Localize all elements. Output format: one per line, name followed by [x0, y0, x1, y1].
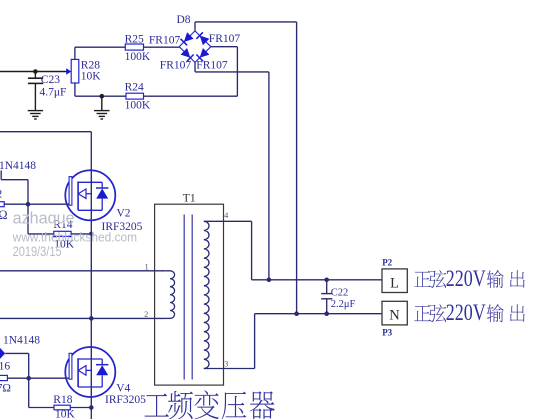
svg-text:100K: 100K: [125, 51, 151, 63]
svg-text:2: 2: [144, 310, 148, 319]
svg-text:R18: R18: [53, 394, 72, 406]
svg-text:2.2μF: 2.2μF: [331, 299, 356, 310]
svg-text:R16: R16: [0, 361, 10, 373]
svg-text:FR107: FR107: [209, 33, 241, 45]
svg-text:220V: 220V: [446, 300, 486, 326]
svg-text:C23: C23: [41, 74, 60, 86]
svg-text:N: N: [389, 308, 400, 324]
svg-text:FR107: FR107: [196, 60, 228, 72]
svg-text:www.theblackshed.com: www.theblackshed.com: [12, 229, 137, 244]
svg-text:L: L: [390, 275, 399, 291]
svg-text:FR107: FR107: [149, 34, 181, 46]
svg-text:1N4148: 1N4148: [0, 160, 36, 172]
svg-text:FR107: FR107: [160, 60, 192, 72]
svg-text:4.7μF: 4.7μF: [40, 86, 67, 98]
svg-text:V4: V4: [116, 383, 130, 395]
svg-text:1: 1: [145, 262, 149, 271]
svg-text:Ω: Ω: [0, 208, 7, 222]
svg-text:2019/3/15: 2019/3/15: [13, 244, 62, 259]
svg-text:C22: C22: [331, 287, 349, 298]
svg-text:10K: 10K: [81, 71, 102, 83]
svg-text:4: 4: [224, 211, 228, 220]
svg-text:R24: R24: [125, 81, 144, 93]
svg-text:1N4148: 1N4148: [3, 335, 40, 347]
svg-text:100K: 100K: [125, 99, 151, 111]
svg-text:2: 2: [0, 189, 3, 201]
svg-text:T1: T1: [183, 193, 196, 205]
svg-text:3: 3: [224, 359, 228, 368]
svg-text:10K: 10K: [55, 409, 76, 419]
svg-text:IRF3205: IRF3205: [105, 394, 146, 406]
svg-text:220V: 220V: [446, 266, 486, 292]
svg-text:D8: D8: [177, 14, 191, 26]
svg-text:azhaque: azhaque: [13, 209, 75, 228]
svg-text:P2: P2: [382, 257, 392, 267]
svg-text:V2: V2: [117, 208, 131, 220]
svg-text:R25: R25: [125, 33, 144, 45]
svg-text:4.7Ω: 4.7Ω: [0, 383, 11, 395]
svg-text:P3: P3: [382, 328, 392, 338]
